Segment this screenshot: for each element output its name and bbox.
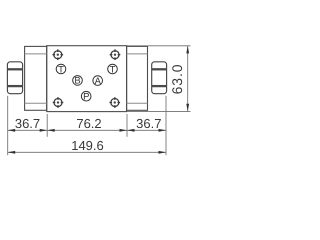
dimension label 36.7 right [136,116,161,131]
svg-text:T: T [58,63,64,74]
mounting hole top-left [53,49,64,60]
dimension line 36.7 right segment [127,129,166,132]
mounting hole bottom-right [110,97,121,108]
extension line body left [46,114,48,137]
port P [81,91,91,102]
left retaining nut [7,62,22,94]
extension line top for height dim [127,45,191,47]
port A [93,75,103,86]
dimension label 63.0 [169,64,185,95]
dimension line 63.0 vertical [186,46,189,111]
dimension line 36.7 left segment [8,129,48,132]
valve body outline [47,46,127,112]
svg-text:36.7: 36.7 [15,116,40,131]
extension line body right [126,114,128,137]
port T right [108,63,118,74]
dimension label 149.6 [71,138,104,153]
extension line right extremity [165,96,167,155]
right retaining nut [152,62,167,94]
dimension line 149.6 [8,151,166,154]
mounting hole top-right [110,49,121,60]
dimension label 76.2 [76,116,101,131]
port T left [56,63,66,74]
extension line bottom for height dim [127,111,191,113]
right solenoid tube [127,46,148,110]
extension line left extremity [7,96,9,155]
svg-text:T: T [110,63,116,74]
svg-text:B: B [74,75,80,86]
port B [73,75,83,86]
left solenoid tube [25,46,47,110]
svg-text:76.2: 76.2 [76,116,101,131]
dimension label 36.7 left [15,116,40,131]
dimension line 76.2 segment [47,129,127,132]
mounting hole bottom-left [53,97,64,108]
svg-text:36.7: 36.7 [136,116,161,131]
svg-text:P: P [83,91,89,102]
svg-text:A: A [95,75,102,86]
svg-text:63.0: 63.0 [169,64,185,95]
svg-text:149.6: 149.6 [71,138,104,153]
